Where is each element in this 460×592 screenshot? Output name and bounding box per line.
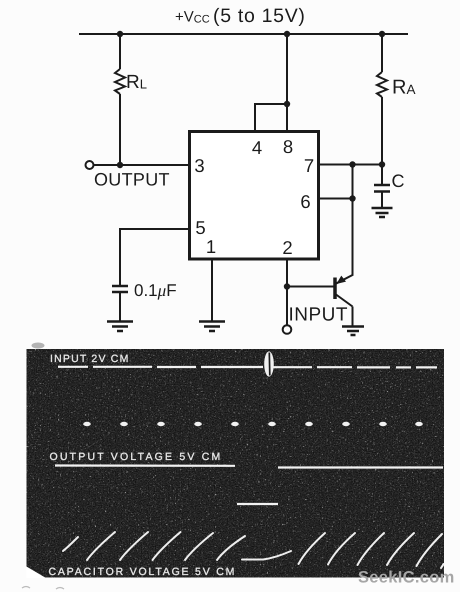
- svg-text:2: 2: [282, 237, 292, 258]
- oscilloscope photo background: [27, 349, 445, 578]
- node junction dot rail-pin8: [284, 31, 290, 37]
- svg-text:0.1μF: 0.1μF: [134, 281, 177, 300]
- op-amp U1 timer IC body: [190, 132, 319, 260]
- smudge above top-left corner: [32, 343, 45, 349]
- node junction dot pin7-emitter: [349, 161, 355, 167]
- svg-text:1: 1: [206, 236, 216, 257]
- wire pin4-pin8 jumper: [255, 34, 287, 132]
- photo corner wedge bottom-left: [27, 567, 47, 579]
- terminal OUTPUT open circle: [86, 161, 94, 169]
- terminal INPUT open circle: [283, 325, 292, 334]
- node junction dot pin2-base: [284, 283, 290, 289]
- wire pin1: [211, 259, 213, 321]
- svg-text:OUTPUT VOLTAGE 5V CM: OUTPUT VOLTAGE 5V CM: [50, 451, 223, 463]
- scope trace output low pulse: [237, 503, 278, 505]
- svg-text:7: 7: [304, 155, 314, 176]
- wire output pin3: [94, 164, 190, 166]
- wire pin6: [319, 198, 353, 200]
- svg-text:CAPACITOR VOLTAGE 5V CM: CAPACITOR VOLTAGE 5V CM: [49, 566, 237, 578]
- svg-text:RL: RL: [126, 72, 147, 93]
- stray marks below photo: [22, 587, 64, 590]
- svg-text:5: 5: [195, 217, 205, 238]
- scope trace mid dotted row: [83, 422, 423, 426]
- node junction dot pin6-emitter: [349, 195, 355, 201]
- node junction dot jumper-pin8: [284, 101, 290, 107]
- svg-text:OUTPUT: OUTPUT: [94, 170, 170, 190]
- capacitor C2 0.1uF: [112, 286, 128, 321]
- svg-text:3: 3: [194, 155, 204, 176]
- net label +Vcc (5 to 15V): [175, 5, 306, 27]
- scope trace input dashed line: [58, 366, 437, 369]
- ground under C1: [372, 208, 393, 217]
- wire Vcc rail: [79, 33, 408, 35]
- svg-text:RA: RA: [392, 77, 415, 99]
- svg-text:C: C: [392, 171, 405, 191]
- transistor Q1: [335, 275, 353, 326]
- svg-text:4: 4: [252, 137, 262, 158]
- node junction dot rail-RA: [379, 31, 385, 37]
- svg-text:SeekIC.com: SeekIC.com: [358, 569, 455, 587]
- node junction dot output-RL: [117, 162, 123, 168]
- ground under Q1: [342, 327, 364, 336]
- wire pin5: [120, 229, 190, 285]
- svg-text:INPUT 2V CM: INPUT 2V CM: [50, 353, 130, 365]
- svg-text:INPUT: INPUT: [289, 305, 349, 326]
- scope trace output high left: [55, 464, 235, 466]
- wire base: [287, 286, 334, 288]
- svg-text:8: 8: [283, 136, 293, 157]
- ground under pin1: [199, 322, 225, 332]
- wire emitter to pins 6 7: [352, 165, 354, 276]
- scope trace capacitor ramps: [63, 532, 444, 568]
- svg-text:6: 6: [300, 191, 310, 212]
- svg-text:(5 to 15V): (5 to 15V): [213, 5, 306, 27]
- resistor RL: [115, 34, 125, 165]
- ground under C2: [107, 322, 133, 332]
- node junction dot pin7-C: [379, 161, 385, 167]
- scope trace output high right: [278, 466, 443, 468]
- transistor Q1 emitter arrowhead: [336, 276, 346, 284]
- node junction dot rail-RL: [117, 31, 123, 37]
- resistor RA: [377, 34, 387, 165]
- svg-text:+VCC: +VCC: [175, 9, 210, 26]
- capacitor C1 C: [374, 165, 390, 208]
- scope trace input spike: [264, 351, 274, 376]
- wire pin7: [319, 164, 383, 166]
- wire pin2 input: [286, 259, 288, 325]
